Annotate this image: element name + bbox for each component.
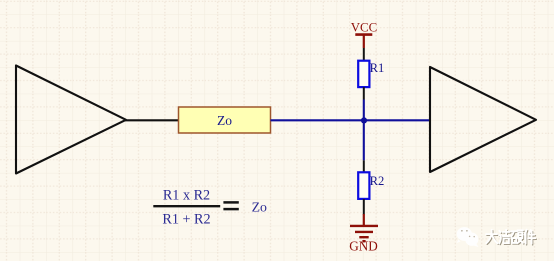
wire: node A to R2 (blue net) — [363, 120, 365, 160]
svg-text:GND: GND — [349, 239, 378, 254]
wire: driver output to Zo (black pin segment) — [125, 119, 179, 121]
svg-text:R2: R2 — [370, 174, 385, 188]
receiver buffer U2 (right triangle) — [430, 67, 536, 172]
svg-text:R1: R1 — [370, 61, 385, 75]
ground symbol GND — [349, 214, 378, 254]
svg-text:Zo: Zo — [217, 113, 232, 128]
formula fraction bar — [153, 205, 220, 207]
resistor Zo (series termination) — [179, 107, 271, 133]
shadow layer — [487, 231, 536, 245]
svg-text:R1 + R2: R1 + R2 — [162, 212, 210, 228]
equals sign — [223, 202, 238, 209]
watermark wechat icon — [457, 227, 479, 247]
watermark text 大话硬件 — [486, 230, 536, 245]
pin: R2 bottom — [363, 199, 365, 215]
pin: R2 top — [363, 160, 365, 172]
resistor R2 — [358, 172, 369, 199]
svg-text:Zo: Zo — [252, 200, 267, 215]
resistor R1 — [358, 61, 369, 87]
white layer — [486, 230, 535, 244]
svg-text:VCC: VCC — [351, 21, 378, 35]
pin: VCC to R1 — [363, 48, 365, 61]
svg-text:R1 x R2: R1 x R2 — [163, 187, 210, 203]
wire: R1 to node A (blue net) — [363, 100, 365, 121]
pin: R1 bottom — [363, 87, 365, 99]
junction node A — [361, 117, 367, 123]
wire: Zo to node A (blue net) — [271, 119, 431, 121]
driver buffer U1 (left triangle) — [16, 66, 126, 174]
power port VCC — [351, 21, 378, 48]
